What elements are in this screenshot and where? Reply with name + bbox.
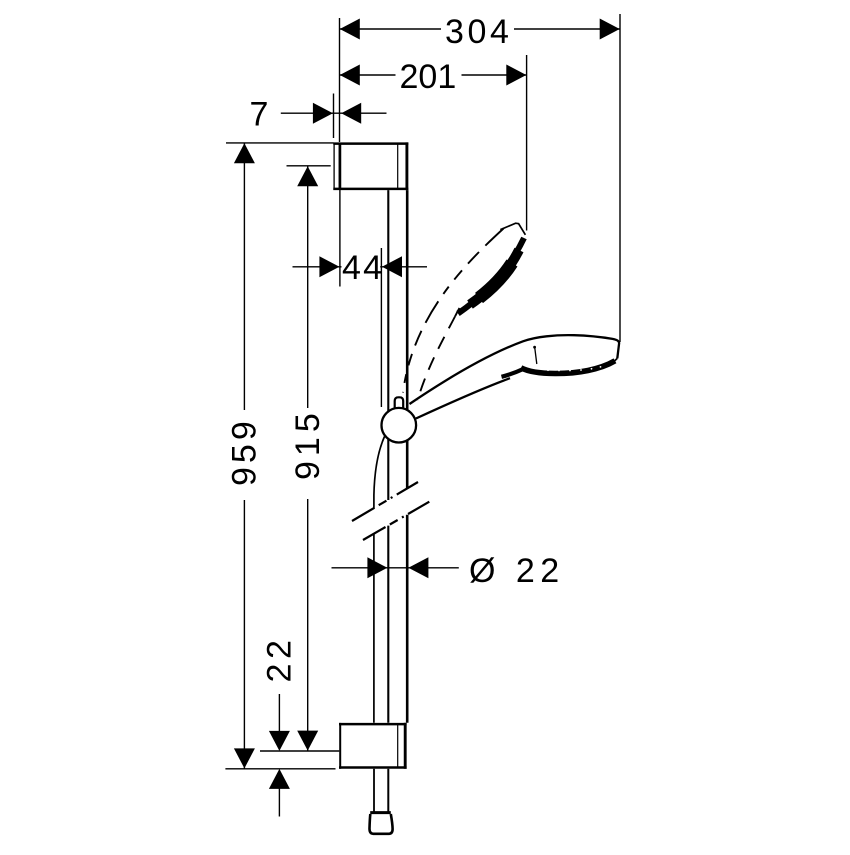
arrowhead 44 left (pointing right) xyxy=(319,256,339,277)
hose curve from slider knob xyxy=(374,437,385,509)
hand shower handle bottom outline xyxy=(416,378,510,418)
white mask behind 959 text xyxy=(229,410,260,500)
extension line left (wall face) for 304/201 xyxy=(339,18,341,142)
spray nozzle white ticks xyxy=(547,366,601,371)
svg-text:22: 22 xyxy=(261,635,299,682)
dimension line 22 vertical upper tail xyxy=(278,694,280,737)
extension line horizontal top (959) xyxy=(226,142,334,144)
slider knob tab xyxy=(395,397,404,412)
hose below bracket left edge xyxy=(373,769,375,812)
svg-text:7: 7 xyxy=(250,96,269,134)
svg-text:201: 201 xyxy=(400,58,457,96)
hand shower handle top outline and head top/right edge xyxy=(410,335,620,404)
dashed position head spray band inner blobs xyxy=(479,263,512,298)
rail right edge upper segment xyxy=(406,190,409,488)
hose end cap body xyxy=(369,814,392,834)
dashed handle outline A (alternate position) xyxy=(403,229,504,393)
extension line 44 right (to knob tangent) xyxy=(380,248,382,407)
svg-text:959: 959 xyxy=(226,417,264,486)
arrowhead 201 left xyxy=(340,65,360,86)
dashed position head spray band xyxy=(458,238,524,314)
arrowhead dia22 right (pointing left) xyxy=(408,557,428,578)
dimension line 304 xyxy=(340,28,621,30)
dimension line 201 xyxy=(340,74,527,76)
svg-text:44: 44 xyxy=(342,249,384,287)
hose straight segment below break xyxy=(373,534,375,723)
white mask behind 304 text xyxy=(441,13,514,46)
dimension line 915 vertical xyxy=(307,166,309,751)
extension line for 201 right end xyxy=(526,55,528,231)
extension line 44 left (wall face below bracket) xyxy=(339,190,341,287)
dashed position head spray band mid thickening xyxy=(470,250,519,305)
dimension line 22 vertical lower tail xyxy=(278,783,280,817)
hose below bracket right edge xyxy=(387,769,389,812)
extension line horizontal (959 bottom / bracket bottom) xyxy=(225,768,335,770)
hose end cap top edge xyxy=(370,811,391,814)
arrowhead 304 right xyxy=(600,19,620,40)
top wall bracket: right thick edge xyxy=(405,142,408,190)
top wall bracket: inner thin line xyxy=(397,144,399,190)
rail left edge upper segment xyxy=(387,190,389,500)
top wall bracket: wall plate thick line xyxy=(339,143,342,191)
top wall bracket: top edge xyxy=(333,142,408,145)
rail right edge lower segment xyxy=(406,515,409,723)
arrowhead 959 top xyxy=(234,143,255,163)
break mark line upper (dash-dot) xyxy=(352,482,418,521)
shower head right corner thin outline xyxy=(603,358,618,368)
arrowhead 304 left xyxy=(340,19,360,40)
dashed position head lower lead-in xyxy=(455,308,460,317)
shower head neck shadow xyxy=(502,369,524,377)
arrowhead 7 left (pointing right at left ext line) xyxy=(313,103,333,124)
dimension line dia22 xyxy=(332,567,459,569)
arrowhead 915 bottom xyxy=(297,731,318,751)
white mask behind 915 text xyxy=(294,408,322,499)
dimension line 959 vertical xyxy=(243,143,245,769)
arrowhead 22 bottom (pointing up) xyxy=(269,769,290,789)
shower head detail tick xyxy=(535,348,537,364)
dimension line 44 xyxy=(293,266,428,268)
bottom wall bracket: right thick edge xyxy=(404,723,407,769)
bottom wall bracket: bottom edge xyxy=(339,766,407,769)
arrowhead 959 bottom xyxy=(234,748,255,768)
bottom wall bracket: top edge xyxy=(339,723,407,726)
arrowhead 7 right (pointing left at right ext line) xyxy=(341,103,361,124)
svg-text:304: 304 xyxy=(445,13,513,51)
white mask behind 22 text xyxy=(264,636,294,686)
dashed position head cap outline xyxy=(500,223,525,235)
arrowhead 201 right xyxy=(506,65,526,86)
extension line horizontal (915 bottom / bracket top) xyxy=(260,750,339,752)
dimension line 7 xyxy=(281,112,387,114)
white mask behind 201 text xyxy=(396,58,462,91)
bottom wall bracket: left edge xyxy=(339,723,341,769)
arrowhead 915 top xyxy=(297,166,318,186)
extension line horizontal (915 top) xyxy=(287,165,331,167)
white mask behind 7 text xyxy=(245,97,271,128)
top wall bracket: left thin edge xyxy=(333,143,335,191)
shower head spray plate dark band xyxy=(521,361,615,374)
svg-text:915: 915 xyxy=(289,408,327,480)
break mark line lower (dash-dot) xyxy=(363,502,429,540)
bottom wall bracket: inner thin line xyxy=(397,724,399,768)
white mask behind 44 text xyxy=(342,253,381,281)
arrowhead 22 top (pointing down) xyxy=(269,731,290,751)
arrowhead 44 right (pointing left) xyxy=(382,256,402,277)
slider knob circle xyxy=(382,408,417,443)
rail left edge lower segment xyxy=(387,526,389,723)
svg-text:Ø 22: Ø 22 xyxy=(469,552,565,590)
extension line for 7 left xyxy=(333,94,335,139)
extension line for 304 right end xyxy=(619,14,621,342)
top wall bracket: bottom edge xyxy=(333,188,408,191)
dashed handle outline B (alternate position) xyxy=(418,317,456,401)
arrowhead dia22 left (pointing right) xyxy=(367,557,387,578)
